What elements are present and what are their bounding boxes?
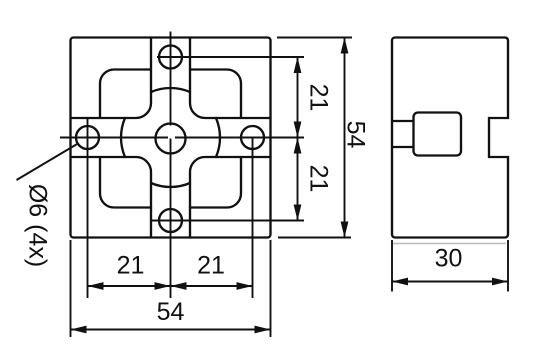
dim line 21 lower right [297, 138, 299, 221]
arrow left 54 bottom [71, 326, 87, 334]
cross slot wall top-right quadrant [190, 38, 271, 119]
horizontal centerline right [175, 137, 304, 139]
svg-text:21: 21 [304, 84, 332, 112]
extension side right bottom [507, 240, 509, 292]
arrow left 21 bottom-right [171, 282, 187, 290]
dim line 30 bottom [392, 281, 508, 283]
extension top edge right [277, 37, 352, 39]
arrow up 54 right [341, 38, 349, 54]
extension right edge bottom [270, 240, 272, 337]
hole right [241, 126, 264, 149]
arrow right 21 bottom-right [237, 282, 253, 290]
dim line 21-21 bottom [88, 285, 253, 287]
arrow left 21 bottom-left [88, 282, 104, 290]
hole top [159, 46, 182, 69]
horizontal centerline left [60, 137, 168, 139]
boss circle arc across bottom slot [151, 183, 190, 187]
boss circle arc across right slot [216, 118, 220, 157]
arrow right 21 bottom-left [155, 282, 171, 290]
svg-text:21: 21 [197, 252, 225, 280]
svg-text:54: 54 [341, 121, 369, 149]
svg-text:54: 54 [157, 298, 185, 326]
vertical centerline upper [170, 32, 172, 126]
side view faint lower line [393, 243, 507, 245]
arrow down 54 right [341, 222, 349, 238]
inner rounded square corner bottom-left [100, 157, 151, 208]
cross slot wall top-left quadrant [71, 38, 152, 119]
bottom hole horizontal line [150, 220, 304, 222]
svg-text:21: 21 [117, 252, 145, 280]
left hole vertical line [87, 118, 89, 298]
top hole horizontal line [157, 56, 304, 58]
cross slot wall bottom-left quadrant [71, 157, 152, 238]
leader line hole callout [17, 144, 79, 181]
side view tab top line [392, 120, 414, 122]
right hole vertical line [252, 138, 254, 299]
arrow left 30 [392, 278, 408, 286]
arrow up 21 upper [294, 57, 302, 73]
extension side left bottom [391, 240, 393, 292]
dim line 54 right [344, 38, 346, 238]
side view tab bottom line [392, 146, 414, 148]
arrow down 21 lower [294, 205, 302, 221]
svg-text:21: 21 [304, 165, 332, 193]
arrow up 21 lower [294, 138, 302, 154]
front view outer square [71, 38, 271, 238]
hole left [76, 126, 99, 149]
side view outline with notch [392, 38, 508, 238]
cross slot wall bottom-right quadrant [190, 157, 271, 238]
boss circle arc across top slot [151, 88, 190, 92]
side view boss square [414, 113, 462, 156]
extension bottom edge right [278, 237, 351, 239]
arrow down 21 upper [294, 122, 302, 138]
vertical centerline lower [170, 139, 172, 299]
center hole [156, 124, 186, 154]
svg-text:Ø6 (4x): Ø6 (4x) [23, 184, 51, 267]
inner rounded square corner top-left [100, 70, 151, 119]
arrow right 54 bottom [255, 326, 271, 334]
dim line 21 upper right [297, 57, 299, 138]
hole bottom [159, 209, 182, 232]
arrow right 30 [492, 278, 508, 286]
dim line 54 bottom [71, 329, 271, 331]
inner rounded square corner bottom-right [190, 157, 241, 208]
boss circle arc across left slot [121, 118, 125, 157]
svg-text:30: 30 [435, 245, 463, 273]
extension left edge bottom [70, 240, 72, 337]
inner rounded square corner top-right [190, 70, 241, 119]
